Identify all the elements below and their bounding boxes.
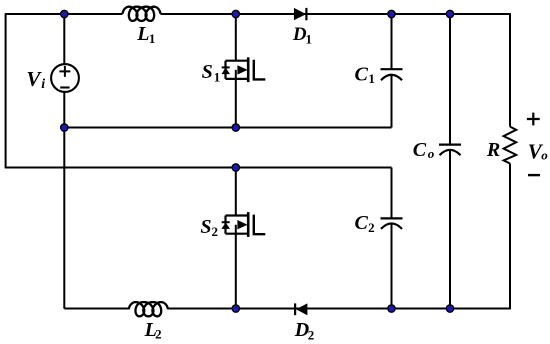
wire bottom rail y=308.5	[64, 308, 510, 309]
junction node at (64.3,14)	[61, 10, 68, 17]
svg-text:2: 2	[368, 220, 375, 235]
junction node at (450,14)	[446, 10, 453, 17]
source Vi plus sign	[59, 66, 70, 77]
switch S1 MOSFET with body diode	[221, 57, 265, 82]
switch S2 MOSFET with body diode	[221, 212, 265, 237]
wire C2 branch x=391.5	[391, 168, 393, 309]
svg-text:R: R	[486, 139, 500, 161]
svg-text:L: L	[136, 23, 149, 45]
wire load branch right edge x=510	[509, 13, 511, 309]
svg-text:S: S	[202, 61, 213, 83]
svg-text:1: 1	[149, 31, 156, 46]
wire left edge x=5.6	[5, 13, 7, 167]
switch body outline	[226, 61, 249, 79]
gate terminal	[254, 215, 265, 235]
source Vi circle	[51, 64, 79, 92]
svg-text:2: 2	[155, 327, 162, 342]
body diode	[222, 66, 230, 68]
inductor L1	[123, 7, 161, 21]
body diode	[222, 221, 230, 223]
junction node at (235.8,167.5)	[232, 164, 239, 171]
svg-text:i: i	[41, 77, 45, 92]
junction node at (64.3,127.5)	[61, 124, 68, 131]
svg-text:C: C	[355, 212, 369, 234]
junction node at (235.8,127.5)	[232, 124, 239, 131]
junction node at (235.8,308.5)	[232, 305, 239, 312]
gate terminal	[254, 60, 265, 80]
svg-text:C: C	[355, 63, 369, 85]
capacitor C2	[381, 217, 403, 219]
channel arrow	[237, 220, 247, 229]
resistor R zigzag	[504, 127, 517, 164]
svg-text:2: 2	[212, 224, 219, 239]
wire top rail y=14	[6, 13, 510, 15]
diode D2	[296, 303, 308, 315]
svg-text:1: 1	[368, 71, 375, 86]
wire S1 drain-source rail x=235.8	[235, 14, 237, 128]
capacitor Co	[439, 144, 461, 146]
wire mid rail y=127.5	[64, 127, 391, 129]
inductor L2	[129, 302, 168, 316]
svg-text:S: S	[200, 216, 211, 238]
capacitor C1	[381, 68, 403, 70]
wire S2 drain-source rail x=235.8	[235, 168, 237, 309]
junction node at (391.5,14)	[388, 10, 395, 17]
wire C1 branch x=391.5	[391, 14, 393, 128]
output minus sign	[528, 174, 540, 176]
wire lower-mid rail y=167.5	[5, 167, 392, 169]
channel bar	[247, 212, 250, 237]
wire Co branch x=450	[449, 14, 451, 309]
svg-text:o: o	[428, 146, 435, 161]
svg-text:o: o	[541, 147, 548, 162]
junction node at (235.8,14)	[232, 10, 239, 17]
channel bar	[247, 57, 250, 82]
svg-text:1: 1	[214, 69, 221, 84]
junction node at (391.5,308.5)	[388, 305, 395, 312]
svg-text:1: 1	[306, 32, 313, 47]
source Vi minus sign	[60, 86, 69, 88]
svg-text:C: C	[413, 139, 427, 161]
wire input rail x=64.3	[63, 14, 65, 309]
junction node at (450,308.5)	[446, 305, 453, 312]
svg-text:2: 2	[308, 327, 315, 342]
diode D1	[294, 8, 306, 20]
switch body outline	[226, 216, 249, 234]
svg-text:V: V	[26, 67, 42, 91]
channel arrow	[237, 65, 247, 74]
output plus sign	[527, 113, 540, 126]
